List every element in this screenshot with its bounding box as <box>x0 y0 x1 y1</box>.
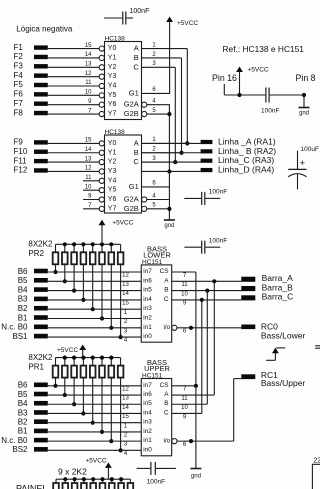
svg-text:Barra_C: Barra_C <box>262 292 294 302</box>
svg-text:in5: in5 <box>143 400 152 407</box>
svg-text:Y3: Y3 <box>108 168 117 175</box>
svg-text:+5VCC: +5VCC <box>177 20 198 27</box>
svg-text:100uF: 100uF <box>301 146 319 153</box>
svg-text:UPPER: UPPER <box>144 364 170 373</box>
svg-text:11: 11 <box>181 396 188 402</box>
svg-text:12: 12 <box>85 166 92 172</box>
svg-text:F1: F1 <box>14 43 24 52</box>
svg-text:PR1: PR1 <box>28 362 44 371</box>
svg-text:10: 10 <box>85 90 92 96</box>
svg-text:G2B: G2B <box>124 204 139 213</box>
svg-text:in7: in7 <box>143 268 152 275</box>
svg-text:in4: in4 <box>143 296 152 303</box>
svg-text:10: 10 <box>181 405 188 411</box>
svg-text:B: B <box>164 400 168 407</box>
svg-text:Y7: Y7 <box>108 205 117 212</box>
svg-text:100nF: 100nF <box>147 478 165 485</box>
svg-text:9 x 2K2: 9 x 2K2 <box>58 466 87 476</box>
svg-text:12: 12 <box>85 71 92 77</box>
svg-text:in2: in2 <box>143 315 152 322</box>
svg-text:8X2K2: 8X2K2 <box>28 353 53 362</box>
svg-text:PAINEL: PAINEL <box>16 484 47 489</box>
svg-text:B6: B6 <box>18 381 28 390</box>
svg-text:gnd: gnd <box>164 223 174 229</box>
svg-text:Y0: Y0 <box>108 140 117 147</box>
svg-text:Pin 16: Pin 16 <box>212 73 237 83</box>
svg-text:14: 14 <box>122 291 129 297</box>
svg-text:B2: B2 <box>18 417 28 426</box>
svg-text:B6: B6 <box>18 267 28 276</box>
svg-text:12: 12 <box>122 386 129 392</box>
svg-text:100nF: 100nF <box>130 8 150 15</box>
svg-text:C: C <box>133 62 139 71</box>
svg-text:C: C <box>164 296 169 303</box>
svg-text:A: A <box>134 44 139 53</box>
svg-text:100nF: 100nF <box>209 237 227 244</box>
svg-text:BS2: BS2 <box>12 445 28 454</box>
svg-text:i/o: i/o <box>163 324 170 331</box>
svg-text:F2: F2 <box>14 52 24 61</box>
svg-text:Y1: Y1 <box>108 54 117 61</box>
svg-text:A: A <box>164 391 169 398</box>
svg-text:B2: B2 <box>18 304 28 313</box>
svg-text:C: C <box>164 409 169 416</box>
svg-text:B4: B4 <box>18 285 28 294</box>
svg-text:F9: F9 <box>14 138 24 147</box>
svg-text:B4: B4 <box>18 399 28 408</box>
svg-text:10: 10 <box>181 291 188 297</box>
svg-text:in1: in1 <box>143 437 152 444</box>
svg-text:G2A: G2A <box>124 100 139 109</box>
svg-text:in4: in4 <box>143 409 152 416</box>
svg-text:15: 15 <box>122 414 129 420</box>
svg-text:Y0: Y0 <box>108 45 117 52</box>
svg-text:10: 10 <box>85 184 92 190</box>
svg-text:13: 13 <box>122 282 129 288</box>
svg-text:Y4: Y4 <box>108 177 117 184</box>
svg-text:13: 13 <box>85 62 92 68</box>
svg-text:LOWER: LOWER <box>143 251 171 260</box>
svg-text:11: 11 <box>85 80 92 86</box>
svg-text:B: B <box>164 287 168 294</box>
svg-text:in3: in3 <box>143 419 152 426</box>
svg-text:+: + <box>300 158 306 169</box>
svg-text:in6: in6 <box>143 391 152 398</box>
svg-text:CS: CS <box>160 382 169 389</box>
svg-text:F8: F8 <box>14 108 24 117</box>
svg-text:+5VCC: +5VCC <box>248 67 269 74</box>
svg-text:PR2: PR2 <box>28 249 44 258</box>
svg-text:Y2: Y2 <box>108 64 117 71</box>
svg-text:F10: F10 <box>14 147 28 156</box>
svg-text:15: 15 <box>85 138 92 144</box>
svg-text:A: A <box>164 277 169 284</box>
svg-text:Pin 8: Pin 8 <box>296 73 316 83</box>
svg-text:14: 14 <box>122 405 129 411</box>
svg-text:i/o: i/o <box>163 437 170 444</box>
svg-text:100nF: 100nF <box>261 108 279 115</box>
svg-text:8X2K2: 8X2K2 <box>28 240 53 249</box>
svg-text:in7: in7 <box>143 382 152 389</box>
svg-text:15: 15 <box>85 43 92 49</box>
svg-text:100nF: 100nF <box>209 188 227 195</box>
svg-text:+5VCC: +5VCC <box>57 347 78 354</box>
svg-text:B1: B1 <box>18 427 28 436</box>
svg-text:in2: in2 <box>143 428 152 435</box>
svg-text:Y3: Y3 <box>108 73 117 80</box>
svg-text:Y2: Y2 <box>108 159 117 166</box>
svg-text:12: 12 <box>122 273 129 279</box>
svg-text:B: B <box>134 53 139 62</box>
svg-text:14: 14 <box>85 52 92 58</box>
svg-text:in1: in1 <box>143 324 152 331</box>
svg-text:G2A: G2A <box>124 195 139 204</box>
svg-text:13: 13 <box>85 156 92 162</box>
svg-text:CS: CS <box>160 268 169 275</box>
svg-text:15: 15 <box>122 301 129 307</box>
svg-text:B3: B3 <box>18 295 28 304</box>
svg-text:gnd: gnd <box>191 474 201 480</box>
svg-text:G1: G1 <box>129 88 139 97</box>
svg-text:Linha_D (RA4): Linha_D (RA4) <box>218 164 274 174</box>
svg-text:F11: F11 <box>14 156 28 165</box>
svg-text:in0: in0 <box>143 446 152 453</box>
svg-text:11: 11 <box>85 175 92 181</box>
svg-text:13: 13 <box>122 396 129 402</box>
svg-text:Lógica negativa: Lógica negativa <box>16 25 73 34</box>
svg-text:Y6: Y6 <box>108 101 117 108</box>
svg-text:F6: F6 <box>14 90 24 99</box>
svg-text:Bass/Lower: Bass/Lower <box>261 331 306 341</box>
svg-text:11: 11 <box>181 282 188 288</box>
svg-text:Y7: Y7 <box>108 111 117 118</box>
svg-text:+5VCC: +5VCC <box>86 457 107 464</box>
svg-text:Y5: Y5 <box>108 92 117 99</box>
svg-text:Ref.: HC138 e HC151: Ref.: HC138 e HC151 <box>223 44 305 54</box>
svg-text:B3: B3 <box>18 408 28 417</box>
svg-text:N.c. B0: N.c. B0 <box>1 436 28 445</box>
svg-text:F4: F4 <box>14 71 24 80</box>
svg-text:A: A <box>134 138 139 147</box>
svg-text:B5: B5 <box>18 276 28 285</box>
svg-text:B: B <box>134 148 139 157</box>
svg-text:F5: F5 <box>14 80 24 89</box>
svg-text:C: C <box>133 157 139 166</box>
svg-text:G1: G1 <box>129 182 139 191</box>
svg-text:B1: B1 <box>18 313 28 322</box>
svg-text:+5VCC: +5VCC <box>112 219 133 226</box>
svg-text:Y5: Y5 <box>108 187 117 194</box>
svg-text:in3: in3 <box>143 305 152 312</box>
svg-text:Bass/Upper: Bass/Upper <box>261 378 306 388</box>
svg-text:F12: F12 <box>14 166 28 175</box>
svg-text:in6: in6 <box>143 277 152 284</box>
svg-text:Y1: Y1 <box>108 149 117 156</box>
svg-text:14: 14 <box>85 147 92 153</box>
svg-text:in0: in0 <box>143 333 152 340</box>
svg-text:F7: F7 <box>14 99 24 108</box>
svg-text:G2B: G2B <box>124 109 139 118</box>
svg-text:Y4: Y4 <box>108 83 117 90</box>
svg-text:F3: F3 <box>14 62 24 71</box>
svg-text:N.c. B0: N.c. B0 <box>1 323 28 332</box>
svg-text:B5: B5 <box>18 390 28 399</box>
svg-text:in5: in5 <box>143 287 152 294</box>
svg-text:22: 22 <box>313 458 320 465</box>
svg-text:gnd: gnd <box>299 111 309 117</box>
svg-text:Y6: Y6 <box>108 196 117 203</box>
svg-text:BS1: BS1 <box>12 332 28 341</box>
